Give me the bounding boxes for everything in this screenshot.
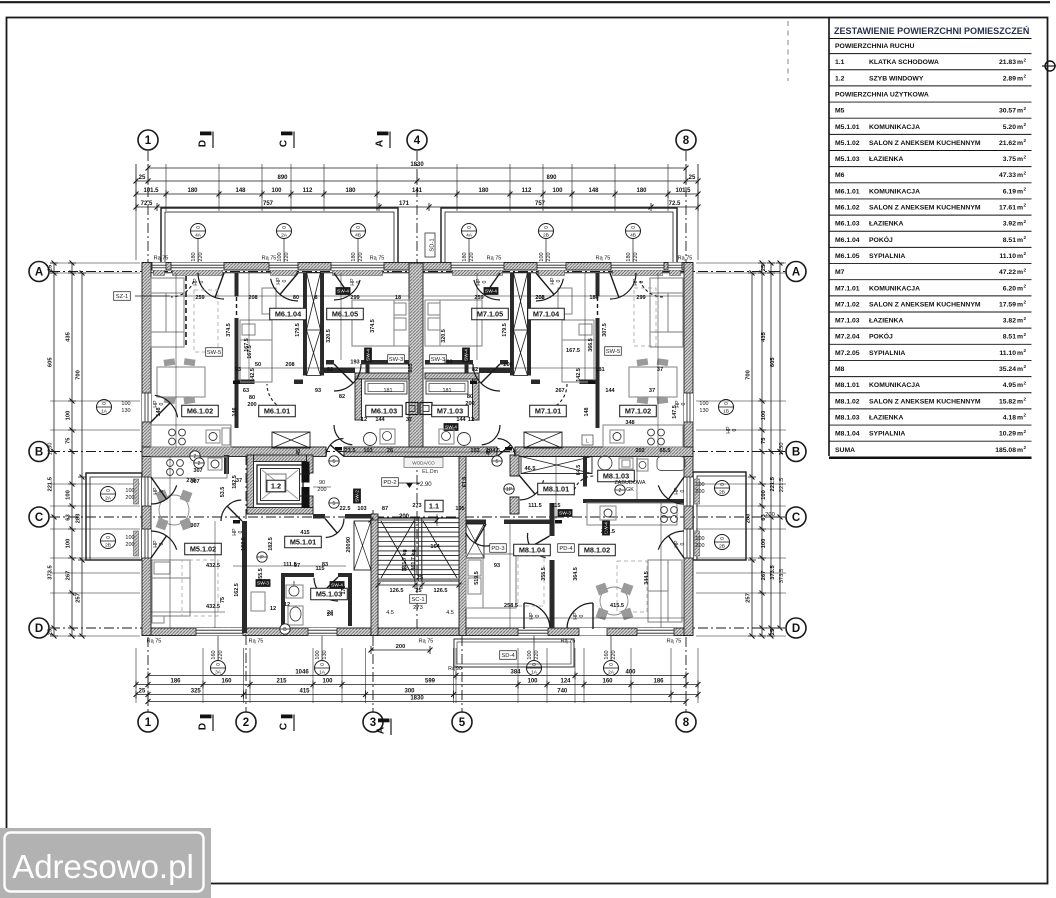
svg-text:100: 100 [121,401,130,407]
bed M6.1.05 [352,300,409,346]
svg-text:WODA/CO: WODA/CO [412,461,435,466]
svg-text:148: 148 [156,408,162,417]
svg-text:M6.1.01: M6.1.01 [835,188,860,195]
axis 2 line [245,455,247,712]
corridor wardrobe M7 [524,432,562,448]
svg-text:2: 2 [1024,380,1027,385]
door M6.1.05 corridor [334,364,361,391]
svg-text:m: m [1017,237,1023,244]
svg-text:757: 757 [263,201,274,207]
left dimension chain col 3 [81,273,83,636]
svg-text:72.5: 72.5 [669,201,681,207]
svg-text:195: 195 [455,506,464,512]
fridge M6 [222,428,230,445]
svg-text:320.5: 320.5 [441,329,447,343]
svg-text:2: 2 [1024,122,1027,127]
label SW-4 M7 [484,287,499,295]
symbol kitchen M8 [615,485,625,495]
label SW-4 M6.1.05 [364,348,372,363]
svg-text:47.33: 47.33 [999,172,1016,179]
door M6 balcony [198,273,224,299]
svg-text:O: O [720,482,724,488]
svg-text:O: O [467,225,471,231]
svg-text:m: m [1017,140,1023,147]
kitchen counter M8 [587,503,677,525]
top wall windows [152,263,166,271]
svg-text:O: O [631,225,635,231]
svg-text:144: 144 [456,417,466,423]
svg-text:SW-4: SW-4 [464,349,470,361]
door marker M5 entry [329,498,339,508]
corridor nook wall M7 [479,368,511,374]
svg-text:M5.1.01: M5.1.01 [290,537,316,546]
room label M6.1.02 [182,405,219,417]
svg-text:142.5: 142.5 [250,368,256,382]
vent shaft squares [406,403,418,415]
door opening bottom wall M8.1.02 [579,628,607,636]
svg-text:100: 100 [527,650,533,659]
room label M5.1.01 [285,536,322,548]
svg-text:53.5: 53.5 [220,487,226,498]
bed M5 [152,560,190,616]
door M5.1.02 living [221,500,241,521]
label SW-3 M5 [256,579,271,587]
svg-text:M6.1.05: M6.1.05 [835,253,860,260]
svg-text:180: 180 [191,252,197,261]
svg-text:186: 186 [170,679,181,685]
room label M7.1.02 [620,405,657,417]
wall sockets [233,381,240,385]
svg-text:100: 100 [527,679,538,685]
svg-text:2B: 2B [105,542,111,548]
zabudowa shelf M7 bath [426,381,468,394]
left dim extension lines [50,262,140,264]
svg-text:M6.1.02: M6.1.02 [835,205,860,212]
svg-text:348: 348 [625,420,634,426]
door M7.1.05 corridor [473,364,500,391]
room label M7.1.03 [432,405,469,417]
svg-text:M5.1.03: M5.1.03 [835,156,860,163]
svg-text:m: m [1017,172,1023,179]
svg-text:C: C [35,512,43,524]
svg-text:0: 0 [556,279,562,282]
svg-text:1046: 1046 [295,670,309,676]
svg-text:3.75: 3.75 [1003,156,1016,163]
svg-text:m: m [1017,398,1023,405]
svg-text:M6.1.01: M6.1.01 [264,406,290,415]
svg-text:SUMA: SUMA [835,447,855,454]
door M8.1.01 entry [520,480,544,500]
svg-text:2B: 2B [719,543,725,549]
section mark A top [377,132,389,136]
svg-text:126.5: 126.5 [434,588,448,594]
svg-text:75: 75 [220,597,226,603]
svg-text:167.5: 167.5 [247,345,253,359]
svg-text:220: 220 [218,650,224,659]
symbol stair [280,624,290,634]
svg-text:130: 130 [322,650,328,659]
svg-text:SW-4: SW-4 [445,425,457,431]
symbol hall [257,552,267,562]
svg-text:87: 87 [382,506,388,512]
svg-text:175: 175 [341,586,347,595]
label SZ-1 [114,292,131,301]
svg-text:Rą 75: Rą 75 [249,639,264,645]
door marker M7 entry [492,456,502,466]
svg-text:m: m [1017,447,1023,454]
kitchen island M7 [629,367,677,397]
svg-text:POKÓJ: POKÓJ [869,235,893,244]
window sill boxes left wall [134,479,139,504]
svg-text:35.24: 35.24 [999,366,1016,373]
stove M6 [169,429,176,436]
svg-text:22.5: 22.5 [340,506,351,512]
svg-text:PD-2: PD-2 [383,480,396,486]
svg-text:SZYB WINDOWY: SZYB WINDOWY [869,75,924,82]
svg-text:0: 0 [579,614,585,617]
svg-text:202: 202 [635,448,644,454]
gray dashed separator [787,21,789,81]
svg-text:283: 283 [76,513,82,523]
axis D line [50,627,786,629]
svg-text:A: A [35,267,43,279]
svg-text:182.5: 182.5 [268,537,274,551]
svg-text:SW-3: SW-3 [559,511,571,517]
svg-text:292.5: 292.5 [601,529,615,535]
label SW-3 M8 [558,509,573,517]
balcony top-right [441,208,677,263]
svg-text:2: 2 [1024,106,1027,111]
svg-text:2: 2 [1024,219,1027,224]
corridor wardrobe M6 [272,432,310,448]
section mark C bottom [281,715,293,719]
bottom dimension chain row 0 [148,675,686,677]
svg-text:180: 180 [345,188,356,194]
svg-text:200: 200 [125,495,134,501]
svg-text:179.5: 179.5 [295,323,301,337]
svg-text:200: 200 [317,487,326,493]
window sill boxes right wall [695,479,700,504]
stove M5 [167,460,174,467]
svg-text:2: 2 [1024,445,1027,450]
svg-text:21.83: 21.83 [999,59,1016,66]
svg-text:45: 45 [296,449,302,455]
svg-text:SALON Z ANEKSEM KUCHENNYM: SALON Z ANEKSEM KUCHENNYM [869,140,981,147]
svg-text:307.5: 307.5 [602,323,608,337]
svg-text:220: 220 [284,252,290,261]
stair width dim [371,519,437,521]
svg-text:1230: 1230 [779,443,785,456]
svg-text:2: 2 [1024,397,1027,402]
bottom dimension chain row 3 (total 1830) [148,701,686,703]
bottom dim extension lines [135,648,137,703]
svg-text:24: 24 [327,610,334,616]
svg-text:m: m [1017,124,1023,131]
svg-text:4.95: 4.95 [1003,382,1016,389]
svg-text:366.5: 366.5 [588,338,594,352]
elevator door lines [300,473,310,475]
svg-text:180: 180 [626,252,632,261]
door M7 entry [498,439,515,457]
label WODA/CO [404,458,443,468]
door M7.1.05 top [474,280,500,300]
svg-text:1.1: 1.1 [835,59,845,66]
axis 8 line [685,151,687,712]
svg-text:103: 103 [357,506,366,512]
svg-text:O: O [106,535,110,541]
svg-text:180: 180 [351,252,357,261]
top dimension chain row 1 (total 1830) [148,167,686,169]
svg-text:2: 2 [1024,170,1027,175]
svg-text:O: O [282,225,286,231]
svg-text:82: 82 [339,394,345,400]
door M5 entry [326,519,344,538]
svg-text:m: m [1017,221,1023,228]
svg-text:2A: 2A [281,232,288,238]
label SW-5 left [206,348,223,357]
svg-text:0: 0 [282,279,288,282]
bath M8.1.03 fixtures [598,456,612,470]
svg-text:100: 100 [277,252,283,261]
svg-text:2: 2 [1024,187,1027,192]
svg-text:D: D [792,623,800,635]
svg-text:519.5: 519.5 [474,571,480,585]
window markers right side [719,400,734,415]
top dim extension lines [135,164,137,211]
svg-text:100: 100 [66,411,72,421]
label SW-4 M5 [330,581,345,589]
door M5.1.03 bath [314,578,338,601]
corridor wall M6 high (horiz) [326,360,334,365]
bottom wall windows [196,628,243,636]
svg-text:SW-4: SW-4 [485,289,497,295]
svg-text:100: 100 [125,488,134,494]
axis 4 line [416,151,418,632]
outer wall top [142,263,693,271]
svg-text:SW-4: SW-4 [366,349,372,361]
M8 closet X near stairs [466,524,484,558]
svg-text:1A: 1A [531,669,538,675]
closet X M8.1.01 top [521,457,592,474]
M5 bath walls [281,573,314,577]
svg-text:M6.1.03: M6.1.03 [371,406,397,415]
hall wall above stairs [313,514,325,519]
stove M7 [648,429,655,436]
elevator shaft [247,455,313,462]
svg-text:L: L [586,439,589,445]
corridor wall M7 high (horiz) [425,360,473,365]
svg-text:M7.2.05: M7.2.05 [835,350,860,357]
corridor nook wall M6 [323,368,355,374]
svg-text:O: O [720,536,724,542]
svg-text:M8.1.02: M8.1.02 [835,398,860,405]
kitchen wall stub M5 [224,455,229,474]
svg-text:200: 200 [399,514,410,520]
svg-text:200: 200 [396,644,406,650]
svg-text:25: 25 [770,628,776,635]
outer wall left [142,263,151,636]
svg-text:O: O [102,401,106,407]
svg-text:220: 220 [198,252,204,261]
desk M6.1.04 [262,288,276,314]
svg-text:0: 0 [159,542,165,545]
svg-text:112: 112 [522,188,532,194]
svg-text:26: 26 [387,448,393,454]
svg-text:0: 0 [356,280,362,283]
door marker M8 entry [504,484,514,494]
svg-text:0: 0 [680,489,686,492]
svg-text:90: 90 [319,480,325,486]
room label M8.1.04 [514,544,551,556]
svg-text:2: 2 [1024,348,1027,353]
svg-text:46.5: 46.5 [525,466,536,472]
svg-text:M6.1.04: M6.1.04 [835,237,860,244]
svg-text:0: 0 [680,542,686,545]
svg-text:M5.1.02: M5.1.02 [835,140,860,147]
svg-text:861.7 kg: 861.7 kg [411,549,417,570]
svg-text:M5: M5 [835,108,845,115]
svg-text:181: 181 [384,388,393,394]
kitchen counter M6 [151,425,231,447]
svg-text:PD-4: PD-4 [559,546,573,552]
svg-text:Rą 75: Rą 75 [667,639,682,645]
svg-text:47.22: 47.22 [999,269,1016,276]
svg-text:SZ-1: SZ-1 [116,294,129,300]
svg-text:25: 25 [139,689,146,695]
svg-text:SALON Z ANEKSEM KUCHENNYM: SALON Z ANEKSEM KUCHENNYM [869,301,981,308]
svg-text:5: 5 [333,459,336,465]
svg-text:5.20: 5.20 [1003,124,1016,131]
svg-text:C: C [279,723,290,730]
svg-text:171: 171 [399,201,410,207]
svg-text:221.5: 221.5 [779,478,785,493]
svg-text:374.5: 374.5 [226,323,232,337]
svg-text:605: 605 [770,357,776,367]
zabudowa shelf M6 bath [365,381,407,394]
svg-text:m: m [1017,156,1023,163]
svg-text:25: 25 [689,175,696,181]
left dimension chain col 2 [71,263,73,636]
svg-text:m: m [1017,285,1023,292]
svg-text:M7.1.04: M7.1.04 [533,309,560,318]
sink M6 [206,430,220,443]
sofa M7 living [650,278,683,347]
room label M8.1.03 [598,470,635,482]
svg-text:180: 180 [187,188,198,194]
room label 1.2 elevator [267,480,285,492]
wall bar M6 bath [366,360,370,373]
bath M7.1.03 fixtures [458,433,471,446]
svg-text:100: 100 [315,650,321,659]
svg-text:4.18: 4.18 [1003,414,1016,421]
grid bubble 5 bottom [452,712,472,732]
svg-text:M5.1.02: M5.1.02 [190,544,216,553]
svg-text:1A: 1A [319,669,326,675]
svg-text:6.19: 6.19 [1003,188,1016,195]
corridor wall M7 low (horiz) [531,380,540,385]
svg-text:2B: 2B [719,489,725,495]
svg-text:63: 63 [66,514,72,521]
grid bubble 4 top [407,130,427,150]
svg-text:m: m [1017,108,1023,115]
svg-text:307: 307 [190,523,199,529]
svg-text:M7.1.02: M7.1.02 [625,406,651,415]
svg-text:181: 181 [443,388,452,394]
svg-text:267: 267 [66,571,72,581]
svg-text:23.5: 23.5 [345,448,356,454]
svg-text:B: B [283,627,287,633]
svg-text:148: 148 [588,188,599,194]
door M6.1.03 bath small [334,425,352,445]
label PD-4 [558,544,575,553]
svg-text:100: 100 [761,539,767,549]
svg-text:344.5: 344.5 [644,571,650,585]
svg-text:SC-1: SC-1 [411,597,424,603]
room label M7.1.04 [528,308,565,320]
svg-text:2: 2 [1024,300,1027,305]
svg-text:Rą 75: Rą 75 [596,256,611,262]
section mark D top [200,132,212,136]
axis C line [50,516,786,518]
svg-text:307: 307 [193,468,202,474]
svg-text:5: 5 [459,717,466,729]
grid bubble 8 top [676,130,696,150]
room label M6.1.04 [270,308,307,320]
level mark stairs [406,483,413,488]
sink M8 [600,506,616,520]
label SW-5 right [605,347,622,356]
svg-text:415: 415 [300,530,309,536]
svg-text:m: m [1017,382,1023,389]
svg-text:KOMUNIKACJA: KOMUNIKACJA [869,188,920,195]
wardrobe X M7 [514,273,528,376]
elevator car [257,465,303,504]
svg-text:10.29: 10.29 [999,431,1016,438]
svg-text:2: 2 [1024,413,1027,418]
svg-text:273: 273 [413,605,423,611]
svg-text:m: m [1017,59,1023,66]
room label M7.1.01 [530,405,567,417]
svg-text:2: 2 [243,717,249,729]
entrance stoop outline [454,639,574,667]
svg-text:M8.1.04: M8.1.04 [519,545,546,554]
staircase diagonals [381,521,414,578]
svg-text:M7.1.01: M7.1.01 [835,285,860,292]
svg-text:355.5: 355.5 [541,567,547,581]
svg-text:SYPIALNIA: SYPIALNIA [869,253,905,260]
svg-text:355.5: 355.5 [258,568,264,582]
svg-text:2A: 2A [105,495,112,501]
svg-text:25: 25 [139,175,146,181]
svg-text:267: 267 [555,388,564,394]
room label M6.1.01 [259,405,296,417]
svg-text:17.61: 17.61 [999,205,1016,212]
svg-text:M6.1.03: M6.1.03 [835,221,860,228]
svg-text:EL.Dm: EL.Dm [422,469,438,475]
label SW-2 stair [353,489,361,504]
door M7 balcony dashed swing [640,281,663,297]
svg-text:m: m [1017,350,1023,357]
svg-text:2A: 2A [608,669,615,675]
svg-text:599: 599 [425,679,436,685]
rug M8 bed dashed [518,556,544,606]
svg-text:208: 208 [285,362,294,368]
svg-text:740: 740 [557,689,568,695]
svg-text:Rą 75: Rą 75 [262,256,277,262]
door left wall top (M6.1.02) [155,395,178,417]
svg-text:435: 435 [66,331,72,341]
svg-text:ZABUDOWA: ZABUDOWA [615,480,646,486]
